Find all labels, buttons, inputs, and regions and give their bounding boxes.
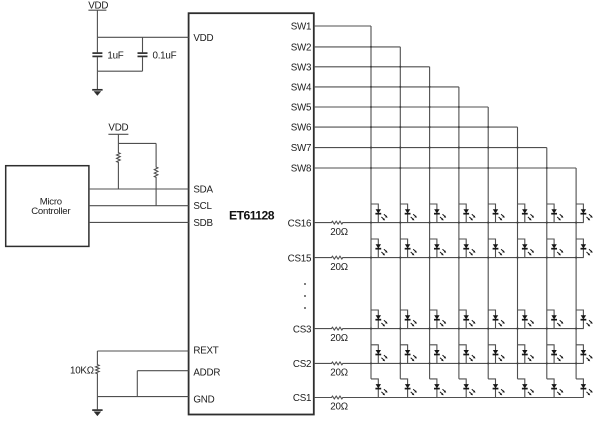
svg-text:SW5: SW5: [291, 103, 312, 114]
svg-text:SCL: SCL: [193, 201, 212, 212]
svg-text:20Ω: 20Ω: [330, 368, 347, 379]
svg-text:CS3: CS3: [293, 324, 312, 335]
svg-text:20Ω: 20Ω: [330, 333, 347, 344]
svg-text:GND: GND: [193, 394, 214, 405]
svg-text:20Ω: 20Ω: [330, 262, 347, 273]
svg-text:SW3: SW3: [291, 62, 312, 73]
svg-text:VDD: VDD: [108, 122, 128, 133]
svg-text:SDB: SDB: [193, 218, 213, 229]
svg-text:VDD: VDD: [193, 33, 213, 44]
svg-text:SW4: SW4: [291, 83, 312, 94]
svg-text:SW7: SW7: [291, 143, 311, 154]
svg-text:0.1uF: 0.1uF: [153, 51, 177, 62]
svg-text:20Ω: 20Ω: [330, 227, 347, 238]
svg-text:CS16: CS16: [288, 218, 312, 229]
svg-text:20Ω: 20Ω: [330, 402, 347, 413]
svg-text:Controller: Controller: [31, 206, 71, 217]
svg-text:SDA: SDA: [193, 185, 213, 196]
svg-text:ET61128: ET61128: [229, 209, 275, 223]
svg-text:ADDR: ADDR: [193, 367, 220, 378]
svg-text:SW1: SW1: [291, 22, 311, 33]
svg-text:SW6: SW6: [291, 123, 312, 134]
svg-text:REXT: REXT: [193, 345, 218, 356]
svg-text:1uF: 1uF: [107, 51, 123, 62]
svg-text:10KΩ: 10KΩ: [70, 366, 94, 377]
svg-text:CS1: CS1: [293, 393, 311, 404]
svg-text:SW8: SW8: [291, 164, 312, 175]
svg-text:SW2: SW2: [291, 43, 311, 54]
svg-text:CS15: CS15: [288, 253, 312, 264]
svg-text:CS2: CS2: [293, 359, 311, 370]
